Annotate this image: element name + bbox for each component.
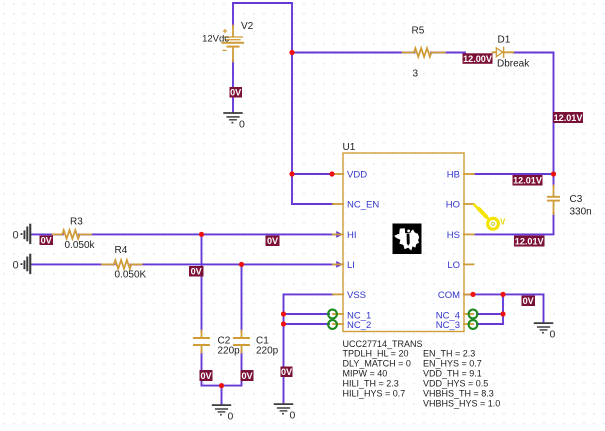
node junction battery/R5: [289, 50, 294, 55]
svg-text:C3: C3: [570, 194, 583, 205]
voltage label 0V COM: [522, 296, 536, 307]
wire C1 bottom to common ground: [222, 352, 242, 386]
svg-text:0V: 0V: [230, 88, 241, 98]
svg-text:0.050k: 0.050k: [65, 240, 96, 251]
arrowhead LI pin: [336, 261, 343, 268]
wire COM vertical to NC_4 NC_3: [502, 294, 504, 324]
svg-text:VDD_HYS = 0.5: VDD_HYS = 0.5: [423, 379, 488, 389]
svg-text:HILI_HYS = 0.7: HILI_HYS = 0.7: [343, 389, 406, 399]
pin NC_2 stub: [333, 323, 343, 325]
pin NC_3 stub: [464, 323, 473, 325]
svg-text:0V: 0V: [523, 296, 534, 306]
ground bottom left common: [212, 405, 231, 415]
op U1 IC box UCC27714: [343, 153, 464, 332]
svg-text:12.01V: 12.01V: [554, 113, 583, 123]
svg-text:U1: U1: [343, 142, 356, 153]
svg-text:VDD_TH = 9.1: VDD_TH = 9.1: [423, 369, 482, 379]
wire junction to R5: [292, 52, 415, 54]
svg-text:LI: LI: [347, 260, 355, 271]
svg-text:HI: HI: [347, 230, 357, 241]
voltage source V2 battery: [223, 26, 244, 62]
svg-text:VSS: VSS: [347, 290, 366, 301]
svg-text:0: 0: [228, 411, 234, 423]
wire R5 to D1 to corner down to HB junction: [431, 52, 465, 54]
pin HO stub: [464, 203, 474, 205]
voltage label 12.01V HB: [513, 175, 543, 186]
no-connect ring NC_1: [328, 310, 337, 319]
resistor R5: [403, 48, 445, 57]
voltage label 12.00V: [463, 53, 493, 64]
svg-text:12.01V: 12.01V: [513, 176, 542, 186]
wire NC_2 branch: [284, 323, 330, 325]
pin COM stub: [464, 293, 474, 295]
svg-text:0: 0: [13, 230, 19, 242]
no-connect ring NC_2: [328, 320, 337, 329]
capacitor C2: [194, 331, 209, 353]
svg-text:NC_2: NC_2: [347, 320, 371, 331]
node junction LI/C1: [239, 262, 244, 267]
capacitor C1: [234, 331, 249, 353]
voltage label 0V C2: [200, 370, 213, 381]
wire input1 to HI pin: [31, 233, 63, 235]
svg-text:LO: LO: [447, 260, 460, 271]
svg-text:EN_TH = 2.3: EN_TH = 2.3: [423, 349, 475, 359]
svg-text:NC_3: NC_3: [436, 320, 460, 331]
svg-text:HO: HO: [446, 199, 460, 210]
wire battery top to junction and down to NC_EN: [233, 3, 292, 204]
svg-text:EN_HYS = 0.7: EN_HYS = 0.7: [423, 359, 482, 369]
node junction COM pin: [470, 292, 475, 297]
svg-text:HILI_TH = 2.3: HILI_TH = 2.3: [343, 379, 399, 389]
svg-text:0: 0: [550, 329, 556, 341]
voltage label 12.01V top: [553, 112, 583, 123]
voltage label 0V LI line: [189, 266, 204, 277]
capacitor C3: [548, 186, 559, 215]
wire input2 to LI pin: [31, 263, 115, 265]
resistor R4: [102, 260, 142, 269]
node junction HB/D1/C3: [551, 171, 556, 176]
svg-text:VHBHS_HYS = 1.0: VHBHS_HYS = 1.0: [423, 399, 500, 409]
svg-text:MIPW = 40: MIPW = 40: [343, 369, 388, 379]
node junction NC_2: [281, 321, 286, 326]
voltage label 0V battery: [230, 87, 243, 98]
pin NC_EN stub: [333, 203, 343, 205]
svg-text:0V: 0V: [200, 371, 211, 381]
wire NC_1 branch: [284, 313, 330, 315]
TI logo: [393, 224, 422, 255]
wire NC_3 branch: [477, 323, 503, 325]
svg-text:TPDLH_HL = 20: TPDLH_HL = 20: [343, 349, 409, 359]
resistor R3: [53, 230, 92, 239]
wire VDD to vertical: [292, 173, 333, 175]
pin VDD stub: [333, 173, 343, 175]
no-connect ring NC_4: [469, 310, 478, 319]
wire HB pin to junction: [474, 173, 554, 175]
svg-text:0V: 0V: [41, 235, 52, 245]
node junction VDD pin: [329, 171, 334, 176]
svg-text:0V: 0V: [241, 371, 252, 381]
ground VSS: [274, 404, 293, 414]
svg-text:DLY_MATCH = 0: DLY_MATCH = 0: [343, 359, 411, 369]
input source stim2: [13, 254, 32, 274]
svg-text:0.050K: 0.050K: [115, 270, 147, 281]
voltage label 0V C1: [241, 370, 254, 381]
arrowhead HI pin: [336, 231, 343, 238]
svg-text:HS: HS: [447, 230, 460, 241]
wire LI junction down to C1: [241, 264, 243, 331]
svg-text:0: 0: [239, 119, 245, 131]
wire C3 bottom to HS pin: [474, 214, 554, 235]
wire battery bottom to ground: [232, 61, 234, 112]
node junction HI/C2: [199, 232, 204, 237]
input source stim1: [13, 224, 32, 244]
wire NC_4 branch: [477, 313, 503, 315]
svg-text:3: 3: [413, 69, 419, 80]
svg-text:V2: V2: [241, 21, 254, 32]
svg-text:R4: R4: [115, 245, 128, 256]
svg-text:12.00V: 12.00V: [463, 54, 492, 64]
svg-text:UCC27714_TRANS: UCC27714_TRANS: [343, 339, 423, 349]
svg-text:0V: 0V: [191, 267, 202, 277]
svg-text:220p: 220p: [256, 346, 279, 357]
svg-text:12Vdc: 12Vdc: [202, 34, 229, 45]
node junction COM vertical: [500, 292, 505, 297]
pin NC_1 stub: [333, 313, 343, 315]
svg-text:NC_EN: NC_EN: [347, 199, 379, 210]
wire HI junction down to C2: [201, 234, 203, 331]
svg-text:HB: HB: [447, 169, 460, 180]
svg-text:0: 0: [290, 410, 296, 422]
probe at HO: [474, 204, 507, 229]
svg-text:VDD: VDD: [347, 169, 367, 180]
wire C2 bottom to common ground: [202, 352, 222, 404]
ground battery: [223, 113, 242, 123]
svg-text:0: 0: [13, 260, 19, 272]
pin HS stub: [464, 233, 474, 235]
node junction VDD vertical: [289, 171, 294, 176]
voltage label 0V VSS: [281, 367, 293, 378]
pin NC_4 stub: [464, 313, 473, 315]
svg-text:12.01V: 12.01V: [515, 236, 544, 246]
pin HB stub: [464, 173, 474, 175]
no-connect ring NC_3: [469, 320, 478, 329]
pin HI stub: [333, 233, 343, 235]
svg-text:330n: 330n: [570, 207, 592, 218]
wire NC_EN: [292, 203, 333, 205]
voltage label 12.01V HS: [514, 236, 545, 247]
ground COM right: [534, 323, 553, 333]
diode D1: [493, 47, 514, 57]
node junction NC_4: [500, 311, 505, 316]
svg-text:V: V: [500, 218, 506, 227]
svg-text:0V: 0V: [267, 236, 278, 246]
svg-text:COM: COM: [438, 290, 460, 301]
wire VSS to left and down to ground: [284, 294, 334, 402]
svg-text:Dbreak: Dbreak: [497, 59, 530, 70]
svg-text:220p: 220p: [218, 346, 241, 357]
node junction C1/C2 ground: [219, 383, 224, 388]
wire COM to right ground: [464, 294, 544, 321]
pin VSS stub: [333, 293, 343, 295]
node junction NC_1: [281, 311, 286, 316]
voltage label 0V input1: [40, 235, 54, 245]
svg-text:D1: D1: [498, 35, 511, 46]
pin LI stub: [333, 263, 343, 265]
svg-text:0V: 0V: [281, 367, 292, 377]
svg-text:R5: R5: [412, 26, 425, 37]
svg-text:R3: R3: [70, 217, 83, 228]
svg-text:VHBHS_TH = 8.3: VHBHS_TH = 8.3: [423, 389, 494, 399]
voltage label 0V HI line: [266, 236, 280, 247]
pin LO stub: [464, 263, 474, 265]
